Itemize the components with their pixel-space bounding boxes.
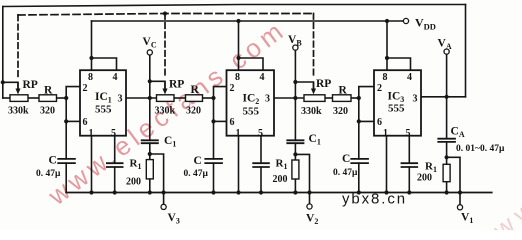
svg-text:3: 3: [413, 94, 418, 105]
capacitor C stage3 plates: [350, 158, 369, 160]
junction bus / R1 stage2: [293, 190, 297, 194]
svg-text:R: R: [339, 85, 348, 97]
wire: IC2 pins 8-4 bracket: [239, 58, 264, 70]
svg-text:V3: V3: [168, 212, 180, 226]
wire: IC1 pin3 to RP2 chain: [126, 97, 157, 99]
capacitor C1 stage2 plates: [286, 139, 304, 141]
wire: dashed gang drop RP2: [164, 14, 166, 79]
potentiometer RP3 wiper arrow: [311, 82, 315, 94]
svg-text:0. 47μ: 0. 47μ: [184, 169, 209, 179]
svg-text:5: 5: [406, 128, 411, 139]
wire: VB node to C1: [294, 98, 296, 140]
junction bus / R1 stage1: [148, 190, 152, 194]
junction RP1 wiper node: [1, 80, 5, 84]
wire: V1 tap branch: [447, 157, 460, 204]
wire: dashed gang drop RP1: [17, 15, 19, 78]
svg-text:555: 555: [243, 106, 260, 118]
resistor R (320) stage3 body: [333, 95, 352, 102]
resistor R1 stage1 body: [146, 160, 153, 179]
svg-text:0. 01~0. 47μ: 0. 01~0. 47μ: [456, 144, 505, 154]
junction bus / IC2 pin5 cap: [259, 190, 263, 194]
svg-text:4: 4: [113, 72, 118, 83]
svg-text:V1: V1: [461, 212, 473, 226]
wire: IC2 pin3 to RP3 chain: [274, 97, 304, 99]
svg-text:320: 320: [333, 106, 348, 117]
svg-text:VA: VA: [438, 38, 452, 52]
wire: stage3 C cap to bus: [358, 163, 360, 192]
junction bus / V1 lead: [458, 190, 462, 194]
wire: VC node to C1: [149, 98, 151, 140]
wire: IC3 pin3 output to right vertical: [421, 96, 466, 98]
wire: IC2 pin8 riser: [238, 21, 240, 70]
resistor R1 stage3 body: [443, 164, 450, 181]
wire: RP1 wiper branch: [3, 82, 18, 90]
junction bus / IC1 pin5 cap: [113, 190, 117, 194]
junction RP2 wiper node: [148, 79, 152, 83]
wire: dashed gang drop RP3: [313, 14, 315, 79]
svg-text:ybx8.cn: ybx8.cn: [342, 191, 407, 208]
wire: VDD rail: [92, 20, 404, 22]
wire: IC3 pin8 riser: [386, 21, 388, 70]
svg-text:R1: R1: [276, 158, 288, 172]
junction IC1 pin3 / VC node: [148, 96, 152, 100]
potentiometer RP1 wiper arrow: [16, 82, 20, 93]
svg-text:4: 4: [407, 72, 412, 83]
svg-text:VC: VC: [143, 36, 157, 50]
junction IC2 pin3 / VB node: [293, 96, 297, 100]
junction IC3 pin2 node: [357, 96, 361, 100]
IC2 555 box: [227, 70, 275, 136]
junction bus / C stage3: [357, 190, 361, 194]
terminal V2: [307, 204, 312, 209]
junction bus / IC1 pin1: [89, 190, 93, 194]
terminal VB: [293, 45, 298, 50]
svg-text:330k: 330k: [301, 106, 322, 117]
svg-text:330k: 330k: [155, 106, 176, 117]
wire: IC3 pins 8-4 bracket: [387, 58, 411, 70]
svg-text:8: 8: [88, 72, 93, 83]
wire: IC3 pin6 stub: [359, 120, 374, 122]
capacitor CA plates: [437, 138, 456, 140]
svg-text:5: 5: [258, 128, 263, 139]
junction RP3 wiper node: [293, 80, 297, 84]
wire: stage2 C1 to R1 to bus: [294, 143, 296, 192]
wire: IC1 pin6 stub: [66, 120, 80, 122]
capacitor IC2 pin5 bypass plates: [252, 162, 269, 164]
junction bus / IC3 pin5 cap: [407, 190, 411, 194]
wire: top feedback line: [3, 5, 466, 7]
junction VDD rail / IC2 pin8 riser: [236, 19, 240, 23]
svg-text:8: 8: [235, 72, 240, 83]
svg-text:320: 320: [186, 106, 201, 117]
junction IC2 bracket / pin8: [236, 56, 240, 60]
wire: stage1 chain lead a: [3, 97, 10, 99]
wire: V3 tap branch: [150, 154, 164, 204]
watermark pink diagonal: [42, 14, 292, 212]
wire: stage1 chain lead c: [57, 97, 67, 99]
svg-text:2: 2: [230, 83, 235, 94]
svg-text:VB: VB: [288, 34, 302, 48]
wire: IC2 pin6 stub: [214, 120, 227, 122]
svg-text:0. 47μ: 0. 47μ: [333, 168, 358, 178]
wire: VB terminal drop: [294, 50, 296, 98]
wire: IC2 pin2/6 vertical to cap C: [213, 98, 215, 159]
wire: stage1 chain lead b: [28, 97, 39, 99]
wire: ground bus: [66, 192, 492, 194]
wire: IC3 pin5 cap to bus: [408, 167, 410, 193]
wire: IC2 pin1 drop: [238, 136, 240, 193]
svg-text:RP: RP: [169, 79, 184, 91]
wire: stage1 C cap to bus corner: [65, 163, 67, 192]
junction bus / V3 lead: [162, 190, 166, 194]
wire: stage3 chain lead b: [325, 97, 333, 99]
wire: IC1 pin1 drop: [91, 136, 93, 193]
IC1 555 box: [80, 70, 126, 136]
svg-text:200: 200: [126, 177, 141, 188]
junction bus / IC2 pin1: [236, 190, 240, 194]
terminal V1: [457, 205, 462, 210]
wire: stage3 chain lead c: [351, 97, 359, 99]
wire: RP2 wiper branch: [150, 81, 165, 90]
svg-text:R: R: [44, 85, 53, 97]
junction IC3 pin6 node: [357, 119, 361, 123]
svg-text:2: 2: [377, 83, 382, 94]
svg-text:330k: 330k: [8, 106, 29, 117]
wire: IC3 pin2 hook: [359, 87, 374, 98]
svg-text:www: www: [487, 175, 522, 230]
junction IC2 pin6 node: [211, 119, 215, 123]
svg-text:6: 6: [83, 117, 88, 128]
resistor R (320) stage2 body: [186, 95, 203, 102]
svg-text:0. 47μ: 0. 47μ: [36, 169, 61, 179]
junction V3 tap node: [148, 152, 152, 156]
junction IC1 pin6 node: [64, 119, 68, 123]
wire: IC3 pin1 drop: [386, 136, 388, 193]
capacitor C1 stage1 plates: [141, 139, 159, 141]
wire: IC2 pin5 drop: [260, 136, 262, 164]
potentiometer RP2 wiper arrow: [163, 81, 167, 93]
svg-text:555: 555: [388, 103, 405, 115]
svg-text:200: 200: [273, 174, 288, 185]
junction IC3 bracket / pin8: [385, 56, 389, 60]
resistor R1 stage2 body: [292, 160, 299, 179]
svg-text:C1: C1: [164, 135, 176, 149]
wire: left vertical (feedback to RP1): [2, 7, 4, 99]
svg-text:R: R: [191, 84, 200, 96]
svg-text:1: 1: [89, 128, 94, 139]
svg-text:C: C: [49, 155, 57, 167]
svg-text:R1: R1: [130, 158, 142, 172]
junction gang rail / RP2 drop: [163, 12, 167, 16]
capacitor C stage2 plates: [204, 158, 223, 160]
potentiometer RP2 330k body: [157, 95, 175, 102]
svg-text:3: 3: [265, 94, 270, 105]
wire: stage3 CA to R1 to bus: [446, 142, 448, 193]
wire: right vertical (IC3 pin3 feedback): [465, 5, 467, 97]
junction V1 tap node: [445, 155, 449, 159]
svg-text:C: C: [342, 153, 350, 165]
junction IC1 bracket / pin8: [89, 56, 93, 60]
wire: IC1 pin2 hook: [66, 87, 80, 98]
IC3 555 box: [374, 70, 421, 136]
svg-text:8: 8: [383, 72, 388, 83]
resistor R (320) stage1 body: [39, 95, 57, 102]
svg-text:1: 1: [236, 128, 241, 139]
svg-text:6: 6: [377, 117, 382, 128]
junction bus / IC3 pin1: [384, 190, 388, 194]
svg-text:RP: RP: [23, 79, 38, 91]
svg-text:RP: RP: [316, 78, 331, 90]
svg-text:VDD: VDD: [415, 16, 436, 32]
terminal VC: [147, 50, 152, 55]
wire: VA node to CA: [446, 97, 448, 139]
wire: IC3 pin2/6 vertical to cap C: [358, 98, 360, 159]
wire: IC3 pin5 drop: [408, 136, 410, 164]
wire: stage2 chain lead b: [174, 97, 186, 99]
potentiometer RP3 330k body: [304, 95, 325, 102]
wire: IC1 pin5 cap to bus: [114, 167, 116, 193]
junction IC2 pin2 node: [211, 96, 215, 100]
svg-text:200: 200: [417, 173, 432, 184]
capacitor IC1 pin5 bypass plates: [106, 162, 124, 164]
junction bus / C stage2: [211, 190, 215, 194]
wire: IC1 pin2/6 vertical to cap C: [65, 98, 67, 159]
svg-text:2: 2: [83, 83, 88, 94]
svg-text:1: 1: [383, 128, 388, 139]
svg-text:5: 5: [111, 128, 116, 139]
wire: RP3 wiper branch: [295, 82, 313, 90]
svg-text:V2: V2: [306, 213, 318, 227]
terminal VDD: [403, 18, 408, 23]
wire: IC2 pin2 hook: [214, 87, 227, 98]
wire: VDD stub circle lead: [403, 20, 405, 22]
svg-text:CA: CA: [451, 126, 465, 140]
svg-text:320: 320: [40, 106, 55, 117]
wire: stage2 chain lead c: [203, 97, 214, 99]
junction IC3 pin3 / VA node: [445, 95, 449, 99]
svg-text:6: 6: [230, 117, 235, 128]
svg-text:4: 4: [260, 72, 265, 83]
junction IC1 pin2 node: [64, 96, 68, 100]
junction VDD rail / IC3 pin8 riser: [385, 19, 389, 23]
wire: stage2 C cap to bus: [213, 163, 215, 192]
wire: IC2 pin5 cap to bus: [260, 167, 262, 193]
wire: VA terminal drop: [446, 54, 448, 97]
wire: VC terminal drop: [149, 55, 151, 98]
junction bus / V2 lead: [307, 190, 311, 194]
wire: IC1 pins 8-4 bracket: [92, 58, 117, 70]
svg-text:C: C: [194, 155, 202, 167]
svg-text:555: 555: [95, 104, 112, 116]
wire: V2 tap branch: [295, 154, 309, 203]
junction bus / R1 stage3: [445, 190, 449, 194]
wire: IC1 pin8 riser: [91, 21, 93, 70]
terminal V3: [161, 204, 166, 209]
capacitor IC3 pin5 bypass plates: [401, 162, 419, 164]
capacitor C stage1 plates: [57, 158, 76, 160]
potentiometer RP1 330k body: [10, 95, 28, 102]
junction V2 tap node: [293, 152, 297, 156]
terminal VA: [444, 49, 449, 54]
svg-text:C1: C1: [309, 133, 321, 147]
wire: dashed gang rail: [18, 14, 314, 16]
wire: stage1 C1 to R1 to bus: [149, 143, 151, 192]
wire: IC1 pin5 drop: [114, 136, 116, 164]
svg-text:3: 3: [118, 94, 123, 105]
